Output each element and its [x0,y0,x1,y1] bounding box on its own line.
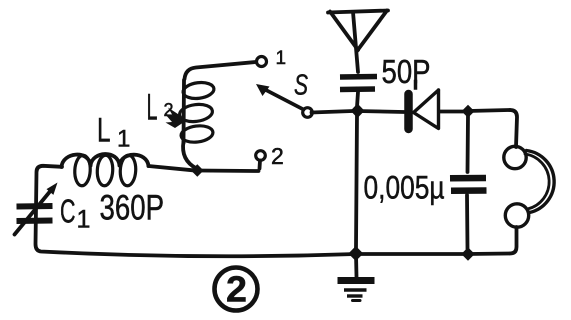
svg-text:2: 2 [271,143,284,169]
svg-text:50P: 50P [382,53,431,90]
svg-text:L: L [97,112,111,150]
svg-text:0,005µ: 0,005µ [364,170,445,206]
svg-text:1: 1 [77,206,91,234]
svg-text:2: 2 [164,100,174,120]
svg-text:C: C [60,193,76,230]
svg-text:S: S [294,70,308,102]
svg-text:360P: 360P [100,189,165,228]
svg-text:1: 1 [276,48,287,69]
svg-text:L: L [147,87,158,128]
svg-text:2: 2 [226,269,247,310]
svg-text:1: 1 [117,126,130,153]
